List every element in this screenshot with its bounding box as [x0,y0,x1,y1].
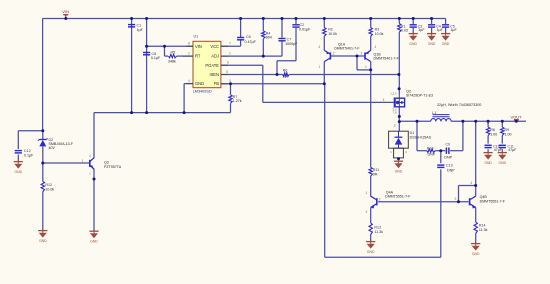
inductor L1 [431,119,452,122]
pin 3 FB [221,83,228,85]
svg-text:5: 5 [226,70,228,74]
svg-text:ADJ: ADJ [211,54,219,59]
transistor Q3 pnp [89,160,91,167]
resistor R14 [474,222,477,234]
wire Q4B emitter to R14 [475,207,477,222]
pin 1 ADJ [221,55,228,57]
capacitor C11 [499,144,506,146]
resistor R7 [229,95,232,104]
svg-text:R7: R7 [233,95,238,99]
op-amp U1 LM3409 controller box [193,41,221,87]
capacitor C12 [15,150,22,152]
svg-text:R8: R8 [490,128,495,132]
wire mirror base tie [331,55,366,57]
junction rail-R2 [323,17,326,20]
diode D2 zener [39,139,46,141]
svg-text:1000pF: 1000pF [285,42,298,46]
wire C2 vertical [295,19,297,25]
junction RT feed [163,45,166,48]
svg-text:DNP: DNP [428,153,436,157]
resistor R10 DNP [427,149,436,152]
svg-text:PZT957TA: PZT957TA [104,165,122,169]
resistor R5 [169,54,177,57]
junction switch node L1 [398,120,401,123]
ground C12 [14,161,23,163]
svg-text:R11: R11 [373,168,379,172]
svg-text:GND: GND [39,239,47,243]
svg-text:2: 2 [394,124,396,128]
svg-text:Si7429DP-T1-E3: Si7429DP-T1-E3 [406,94,433,98]
transistor Q1B [364,52,366,59]
junction VOUT-snubber [461,120,464,123]
svg-text:GND: GND [367,250,375,254]
wire ISEN sense net [221,74,283,76]
wire Q2 drain to switch node [398,107,400,132]
svg-text:LM3409SD: LM3409SD [193,90,212,94]
junction snubber-C13 [439,149,442,152]
pin 6 PGATE [221,64,228,66]
junction mirror bases [356,55,359,58]
junction VIN pin feed [145,45,148,48]
wire R9 branch [501,121,503,127]
wire R1 sense vertical [398,19,400,24]
junction rail-C7 [281,17,284,20]
wire D1 to gnd [398,158,400,161]
wire VIN left vertical [42,19,44,131]
pin 2 RT [186,55,193,57]
svg-text:R5: R5 [171,51,176,55]
svg-text:GND: GND [442,42,450,46]
junction rail-C4 [430,17,433,20]
wire mid rail (IC gnd / Q3 collector net) [94,112,231,114]
svg-text:47µF: 47µF [494,148,503,152]
svg-text:4: 4 [383,98,385,102]
svg-text:PGATE: PGATE [205,63,219,68]
wire snubber branch [416,121,418,150]
svg-text:Q1B: Q1B [374,52,382,56]
junction ISEN node [276,73,279,76]
svg-text:GND: GND [484,161,492,165]
junction D1-GND [397,157,400,160]
capacitor C13 DNP [437,164,444,166]
svg-text:ISEN: ISEN [209,72,219,77]
resistor R9 [501,127,504,136]
wire Q3 emitter to gnd [93,169,95,232]
wire C8 vertical [146,19,148,113]
resistor R3 [369,28,372,37]
svg-text:GND: GND [409,42,417,46]
junction rail-R4 [262,17,265,20]
ground C5 [441,33,450,35]
svg-text:4: 4 [318,45,320,49]
pin 8 VIN [186,45,193,47]
svg-text:7,8: 7,8 [393,111,397,115]
svg-text:1: 1 [365,65,367,69]
svg-text:GND: GND [428,42,436,46]
pin 4 GND [186,83,193,85]
svg-text:C9: C9 [445,142,450,146]
wire Q4A-Q4B base line [378,201,469,203]
wire Q3 collector [93,113,95,159]
svg-text:C2: C2 [300,23,305,27]
svg-text:1.00: 1.00 [505,133,512,137]
svg-text:R6: R6 [283,69,288,73]
svg-text:6: 6 [227,61,229,65]
svg-text:10.0k: 10.0k [375,32,384,36]
resistor R11 [369,167,372,176]
svg-text:VOUT: VOUT [511,114,523,119]
wire R8 branch [487,121,489,127]
svg-text:R13: R13 [374,225,381,229]
svg-text:GND: GND [395,169,403,173]
svg-text:348k: 348k [168,60,176,64]
wire VCC to C6 [221,45,241,47]
svg-text:DMMT5551-7-F: DMMT5551-7-F [385,195,411,199]
resistor R8 [486,127,489,136]
junction midrail-C8 [145,111,148,114]
node A D2-Q3 base [41,162,44,165]
svg-text:47µF: 47µF [508,148,517,152]
ground C4 [427,33,436,35]
ground Q3 [89,230,98,232]
svg-text:1: 1 [318,65,320,69]
svg-text:DSS9-015AS: DSS9-015AS [410,135,432,139]
junction ADJ node [262,55,265,58]
junction VOUT-R9 [501,120,504,123]
junction Q3 emitter [93,178,96,181]
svg-text:VIN: VIN [62,9,69,14]
node VIN port on rail [64,17,67,20]
svg-text:100: 100 [283,75,289,79]
junction VOUT-Q4B [474,120,477,123]
ground C3 [409,33,418,35]
svg-text:Q3: Q3 [104,161,109,165]
wire R2 branch [323,19,325,28]
capacitor C6 [237,37,244,39]
junction Q4 bases [457,200,460,203]
svg-text:C13: C13 [446,163,453,167]
junction FB-Q1A collector [323,82,326,85]
svg-text:C6: C6 [246,35,251,39]
junction midrail-C1 [130,111,133,114]
svg-text:0.03: 0.03 [401,29,408,33]
wire switch node / VOUT rail [399,120,430,122]
junction D2 top node [41,129,44,132]
capacitor C10 [485,144,492,146]
resistor R4 [262,31,265,39]
svg-text:1,2,3: 1,2,3 [390,92,397,96]
wire C4 drop [431,19,433,25]
svg-text:4: 4 [470,181,472,185]
wire R4 vertical [262,19,264,31]
svg-text:10.0k: 10.0k [45,187,54,191]
svg-text:GND: GND [195,81,204,86]
transistor Q1A [329,52,331,59]
ground C10 [484,152,493,154]
junction L1-snubber [416,120,419,123]
wire C13 vertical [440,151,442,164]
junction rail-R3 [369,17,372,20]
svg-text:R14: R14 [479,224,486,228]
svg-text:0R: 0R [373,173,378,177]
svg-text:3: 3 [455,197,457,201]
wire R3 branch [370,19,372,28]
svg-text:GND: GND [499,161,507,165]
svg-text:R3: R3 [375,28,380,32]
svg-text:22µH, Wurth 74436573300: 22µH, Wurth 74436573300 [437,103,481,107]
junction rail-C8 [145,17,148,20]
junction Q1B collector tie [369,68,372,71]
svg-text:7: 7 [229,42,231,46]
wire PGATE net [221,64,263,66]
junction rail-C1 [130,17,133,20]
svg-text:1µF: 1µF [418,28,425,32]
svg-text:8: 8 [188,42,190,46]
junction Q4B collector tie [474,184,477,187]
svg-text:3: 3 [361,52,363,56]
wire RT feed [164,46,166,56]
svg-text:R9: R9 [505,128,510,132]
transistor Q4A npn [376,198,378,205]
wire C7 vertical [281,19,283,38]
wire D2 branch [42,131,44,140]
wire FB long vertical [324,84,326,257]
ground R13 [366,241,375,243]
svg-text:4: 4 [188,79,190,83]
wire C12 branch [18,130,43,132]
junction rail-C6 [239,17,242,20]
capacitor C9 DNP [445,148,447,154]
junction rail-R1 [398,17,401,20]
svg-text:10.0k: 10.0k [328,32,337,36]
wire C5 drop [445,19,447,25]
svg-text:604: 604 [266,36,272,40]
wire Q3 base link [43,162,90,164]
resistor R1 sense [398,24,401,33]
svg-text:GND: GND [15,170,23,174]
pin 7 VCC [221,45,228,47]
junction sense node [397,73,400,76]
svg-text:DNP: DNP [444,155,452,159]
wire Q1A collector to FB [323,62,325,84]
wire bottom return [325,256,441,258]
wire ISEN hop [277,60,296,62]
resistor R13 [369,223,372,235]
svg-text:40V: 40V [49,146,56,150]
svg-text:2: 2 [188,52,190,56]
svg-text:VIN: VIN [195,44,202,49]
svg-text:4: 4 [375,45,377,49]
svg-text:GND: GND [472,252,480,256]
ground R14 [471,243,480,245]
svg-text:4: 4 [365,210,367,214]
transistor Q2 p-channel mosfet [394,98,404,107]
wire Q4A emitter to R13 [370,207,372,223]
svg-text:R2: R2 [328,28,333,32]
capacitor C7 [278,38,285,40]
svg-text:1µF: 1µF [437,28,444,32]
capacitor C2 [292,24,299,26]
capacitor C1 [128,24,135,26]
resistor R2 [323,28,326,37]
diode D1 boxed schottky [389,131,409,148]
junction Q2 source [398,87,401,90]
wire Q1B collector chain to R11 and Q4A [370,62,372,168]
svg-text:1µF: 1µF [137,28,144,32]
svg-text:11.3k: 11.3k [374,230,383,234]
svg-text:1: 1 [365,191,367,195]
svg-text:DMMT5401-7-F: DMMT5401-7-F [334,47,360,51]
svg-text:1: 1 [82,159,84,163]
ground C11 [498,152,507,154]
wire Q4 base tie [458,186,460,202]
svg-text:0.47µF: 0.47µF [245,40,257,44]
junction midrail-GND pin [183,111,186,114]
svg-text:C7: C7 [287,38,292,42]
svg-text:GND: GND [90,239,98,243]
ground D1 [394,160,403,162]
svg-text:DNP: DNP [447,168,455,172]
wire Q4B collector vertical [475,121,477,196]
capacitor C4 [428,24,435,26]
svg-text:0.1µF: 0.1µF [151,56,161,60]
wire FB net [221,83,324,85]
svg-text:2: 2 [379,198,381,202]
wire VIN top rail [42,18,445,20]
capacitor C8 [143,52,150,54]
junction VOUT-R8 [487,120,490,123]
wire C3 drop [412,19,414,25]
svg-text:VCC: VCC [210,44,219,49]
transistor Q4B npn [469,198,471,205]
svg-text:2: 2 [333,52,335,56]
svg-text:1.27k: 1.27k [233,99,242,103]
wire VIN pin feed [147,45,193,47]
resistor R6 [283,73,289,76]
pin 5 ISEN [221,74,228,76]
svg-text:DMMT5551-7-F: DMMT5551-7-F [480,199,506,203]
svg-text:11.3k: 11.3k [479,228,488,232]
svg-text:0.01µF: 0.01µF [299,28,311,32]
svg-text:L1: L1 [432,111,436,115]
svg-text:DMMT5401-7-F: DMMT5401-7-F [374,57,400,61]
svg-text:1: 1 [229,52,231,56]
junction rail-C3 [412,17,415,20]
capacitor C3 [410,24,417,26]
svg-text:R10: R10 [427,147,434,151]
svg-text:0.1µF: 0.1µF [24,153,34,157]
svg-text:U1: U1 [194,35,199,39]
svg-text:1µF: 1µF [450,28,457,32]
ground R12 [38,230,47,232]
wire C1 vertical [131,19,133,113]
resistor R12 [41,181,44,191]
wire ADJ net [221,55,282,57]
svg-text:FB: FB [214,81,220,86]
wire IC GND pin drop [184,83,193,85]
capacitor C5 [442,24,449,26]
junction rail-C2 [295,17,298,20]
svg-text:1.00: 1.00 [490,133,497,137]
junction switch node upper [398,115,401,118]
svg-text:RT: RT [195,54,201,59]
junction FB-R7 [229,82,232,85]
